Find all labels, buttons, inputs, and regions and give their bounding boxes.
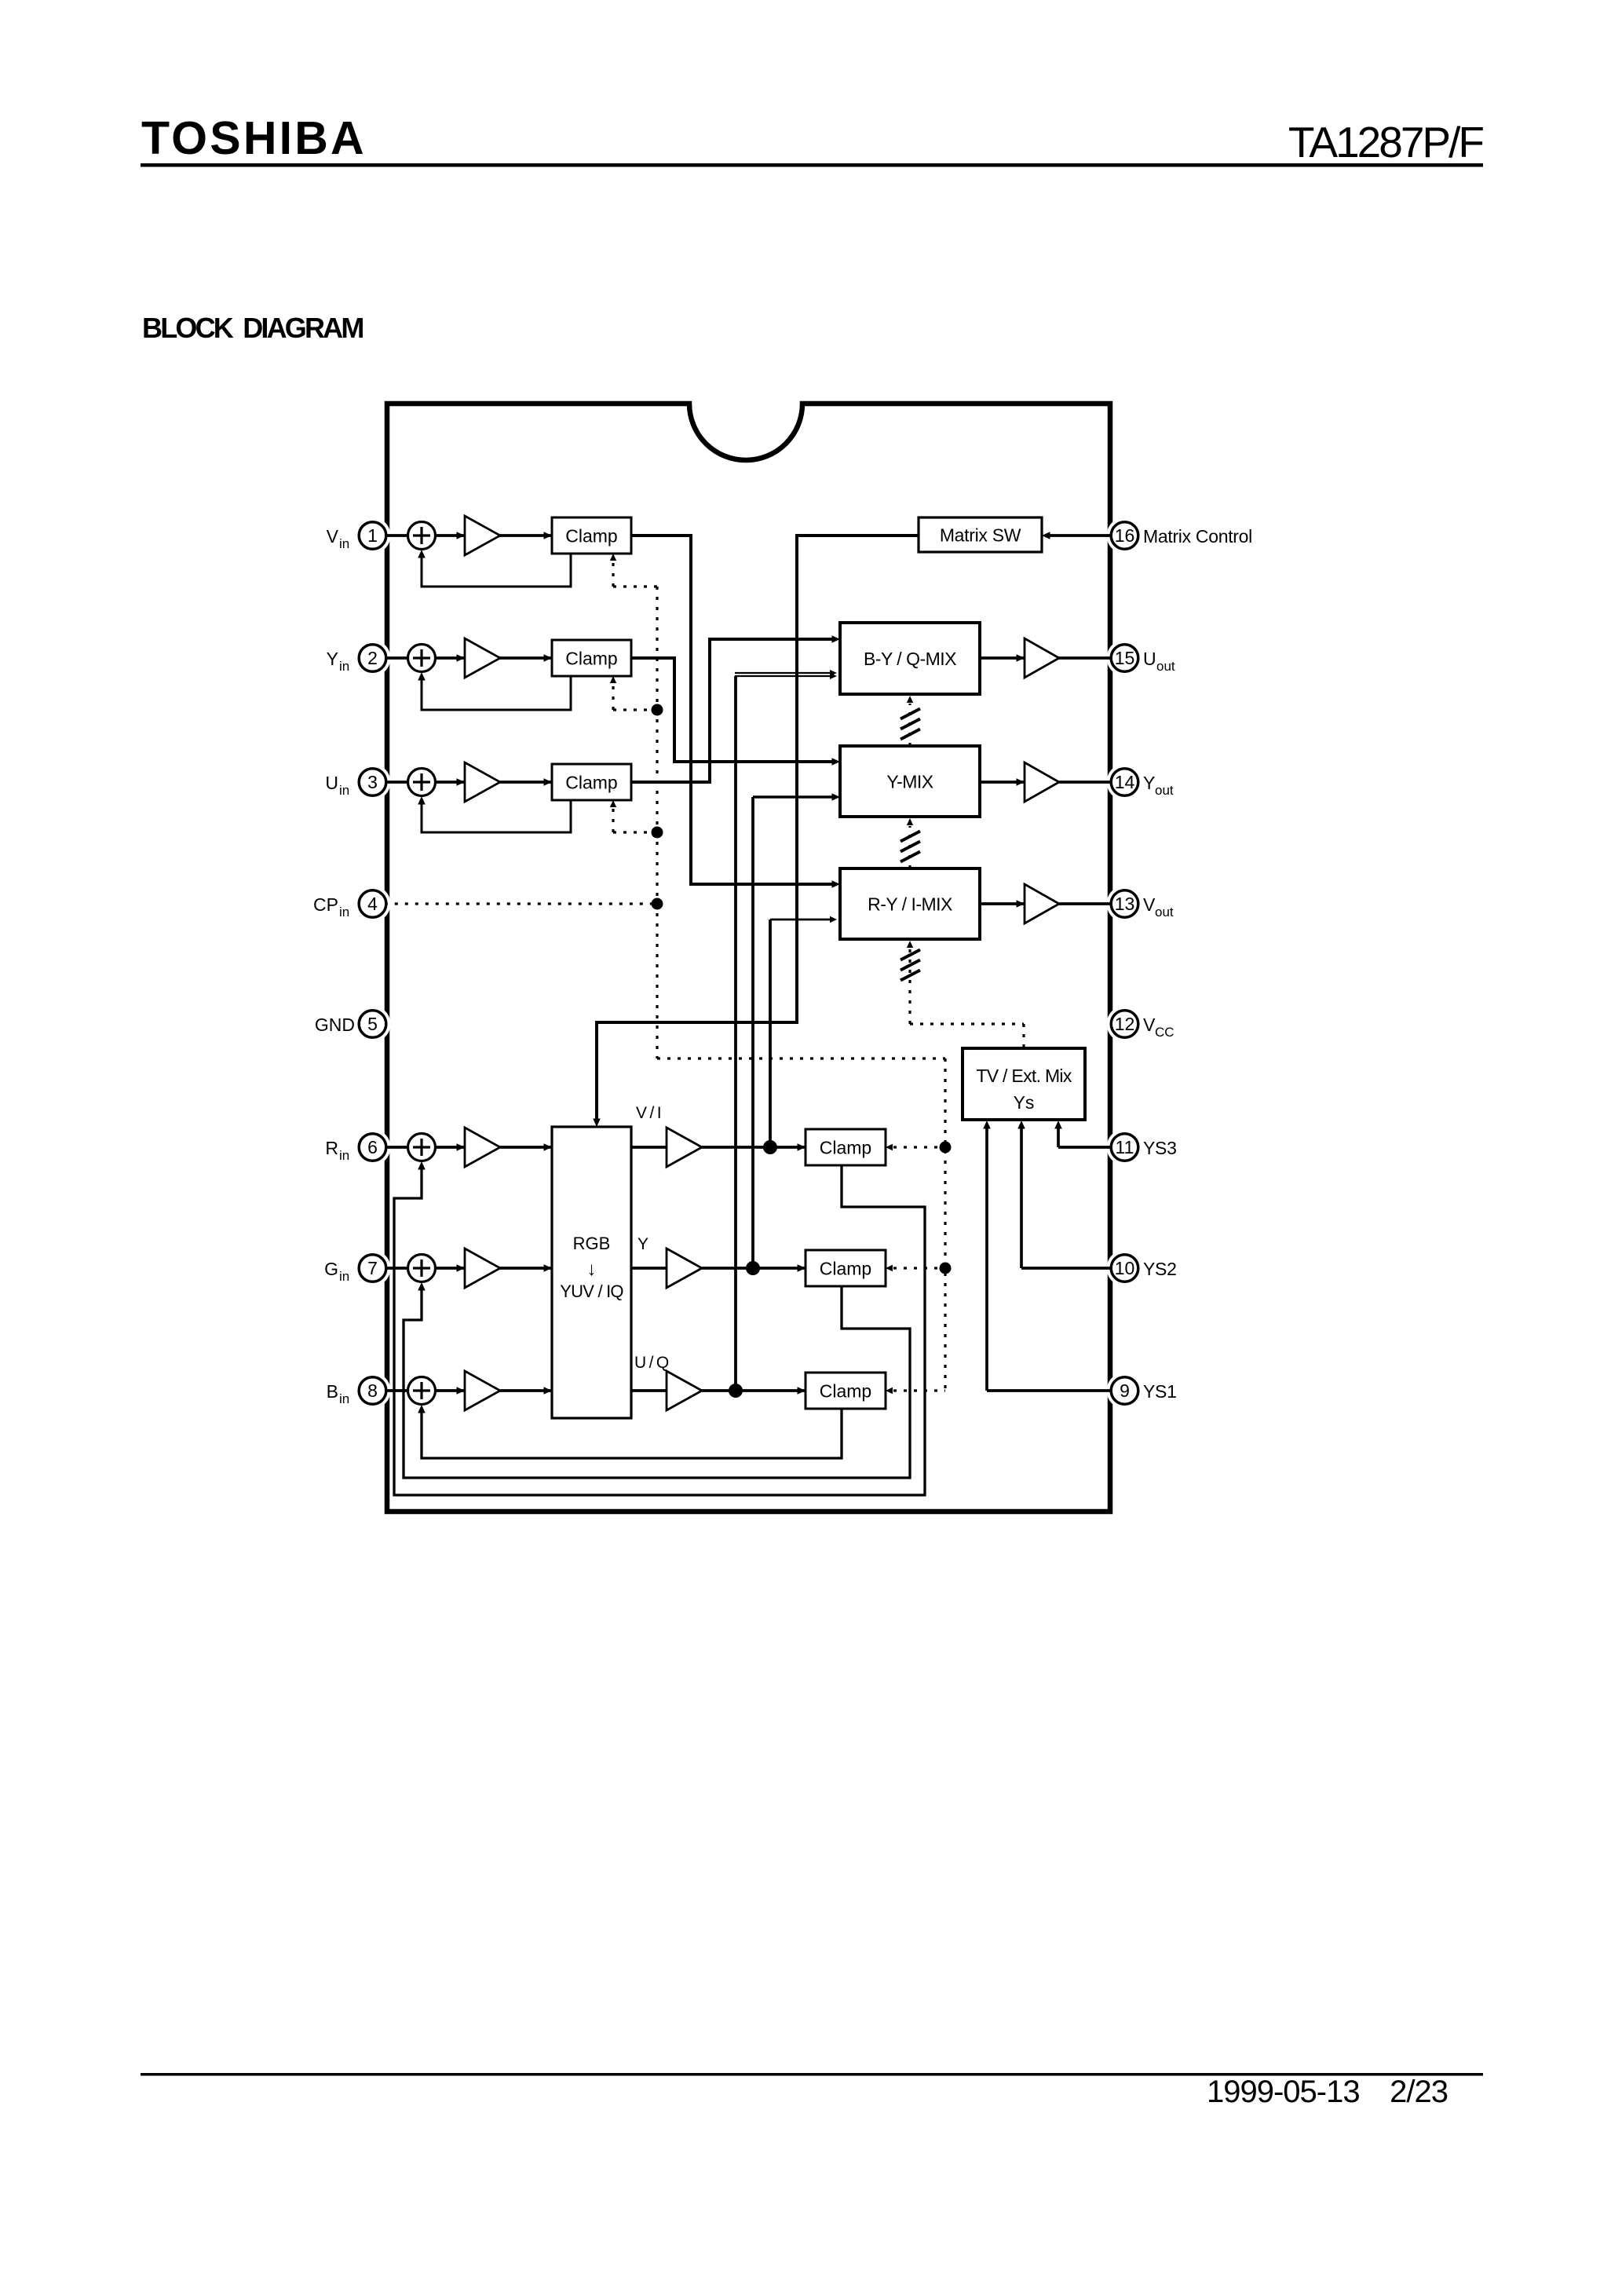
svg-text:1999-05-13: 1999-05-13	[1207, 2075, 1360, 2109]
svg-text:in: in	[339, 783, 349, 798]
svg-text:Ys: Ys	[1014, 1092, 1035, 1113]
svg-text:YS1: YS1	[1143, 1381, 1177, 1402]
svg-text:Y: Y	[1143, 773, 1155, 793]
svg-text:TV / Ext. Mix: TV / Ext. Mix	[976, 1066, 1072, 1086]
svg-text:U: U	[325, 773, 338, 793]
svg-text:1: 1	[367, 525, 378, 546]
svg-text:CC: CC	[1155, 1025, 1174, 1040]
svg-text:out: out	[1155, 783, 1174, 798]
svg-text:3: 3	[367, 772, 378, 792]
svg-text:7: 7	[367, 1258, 378, 1278]
svg-text:16: 16	[1115, 525, 1135, 546]
svg-text:B: B	[327, 1381, 338, 1402]
svg-text:Y: Y	[637, 1235, 648, 1253]
svg-text:9: 9	[1120, 1380, 1130, 1401]
svg-text:V: V	[1143, 1015, 1156, 1035]
svg-text:B-Y / Q-MIX: B-Y / Q-MIX	[864, 649, 956, 669]
svg-text:Matrix Control: Matrix Control	[1143, 526, 1252, 547]
svg-text:Clamp: Clamp	[565, 773, 617, 793]
svg-text:6: 6	[367, 1137, 378, 1157]
svg-text:Clamp: Clamp	[820, 1259, 871, 1279]
svg-text:Clamp: Clamp	[565, 526, 617, 547]
svg-text:TA1287P/F: TA1287P/F	[1288, 118, 1484, 166]
svg-text:in: in	[339, 1269, 349, 1284]
svg-text:4: 4	[367, 894, 378, 914]
svg-text:15: 15	[1115, 648, 1135, 668]
svg-text:10: 10	[1115, 1258, 1135, 1278]
svg-text:5: 5	[367, 1014, 378, 1034]
svg-text:YS2: YS2	[1143, 1259, 1177, 1279]
svg-text:Y: Y	[327, 649, 338, 669]
svg-text:in: in	[339, 659, 349, 674]
svg-text:GND: GND	[315, 1015, 355, 1035]
svg-text:TOSHIBA: TOSHIBA	[141, 112, 367, 164]
svg-text:R-Y / I-MIX: R-Y / I-MIX	[868, 894, 952, 915]
svg-text:out: out	[1155, 905, 1174, 919]
svg-text:U / Q: U / Q	[634, 1354, 669, 1372]
svg-text:V: V	[1143, 894, 1156, 915]
svg-text:12: 12	[1115, 1014, 1135, 1034]
svg-text:R: R	[325, 1138, 338, 1158]
svg-text:in: in	[339, 1391, 349, 1406]
svg-text:2/23: 2/23	[1390, 2075, 1448, 2109]
svg-text:in: in	[339, 905, 349, 919]
svg-text:14: 14	[1115, 772, 1135, 792]
svg-text:11: 11	[1116, 1137, 1134, 1157]
svg-text:V / I: V / I	[636, 1104, 660, 1122]
svg-text:YUV / IQ: YUV / IQ	[560, 1281, 623, 1301]
svg-text:in: in	[339, 536, 349, 551]
svg-text:V: V	[327, 526, 339, 547]
svg-text:Matrix SW: Matrix SW	[940, 525, 1021, 546]
svg-text:Clamp: Clamp	[820, 1138, 871, 1158]
svg-text:Clamp: Clamp	[565, 649, 617, 669]
svg-text:G: G	[324, 1259, 338, 1279]
svg-text:8: 8	[367, 1380, 378, 1401]
svg-text:CP: CP	[313, 894, 338, 915]
svg-text:13: 13	[1115, 894, 1135, 914]
svg-text:out: out	[1156, 659, 1175, 674]
svg-text:YS3: YS3	[1143, 1138, 1177, 1158]
svg-text:Y-MIX: Y-MIX	[886, 772, 933, 792]
svg-text:BLOCK DIAGRAM: BLOCK DIAGRAM	[142, 312, 363, 344]
svg-text:U: U	[1143, 649, 1156, 669]
svg-text:in: in	[339, 1148, 349, 1163]
svg-text:RGB: RGB	[573, 1234, 611, 1253]
svg-text:2: 2	[367, 648, 378, 668]
svg-text:Clamp: Clamp	[820, 1381, 871, 1402]
svg-text:↓: ↓	[587, 1259, 597, 1280]
